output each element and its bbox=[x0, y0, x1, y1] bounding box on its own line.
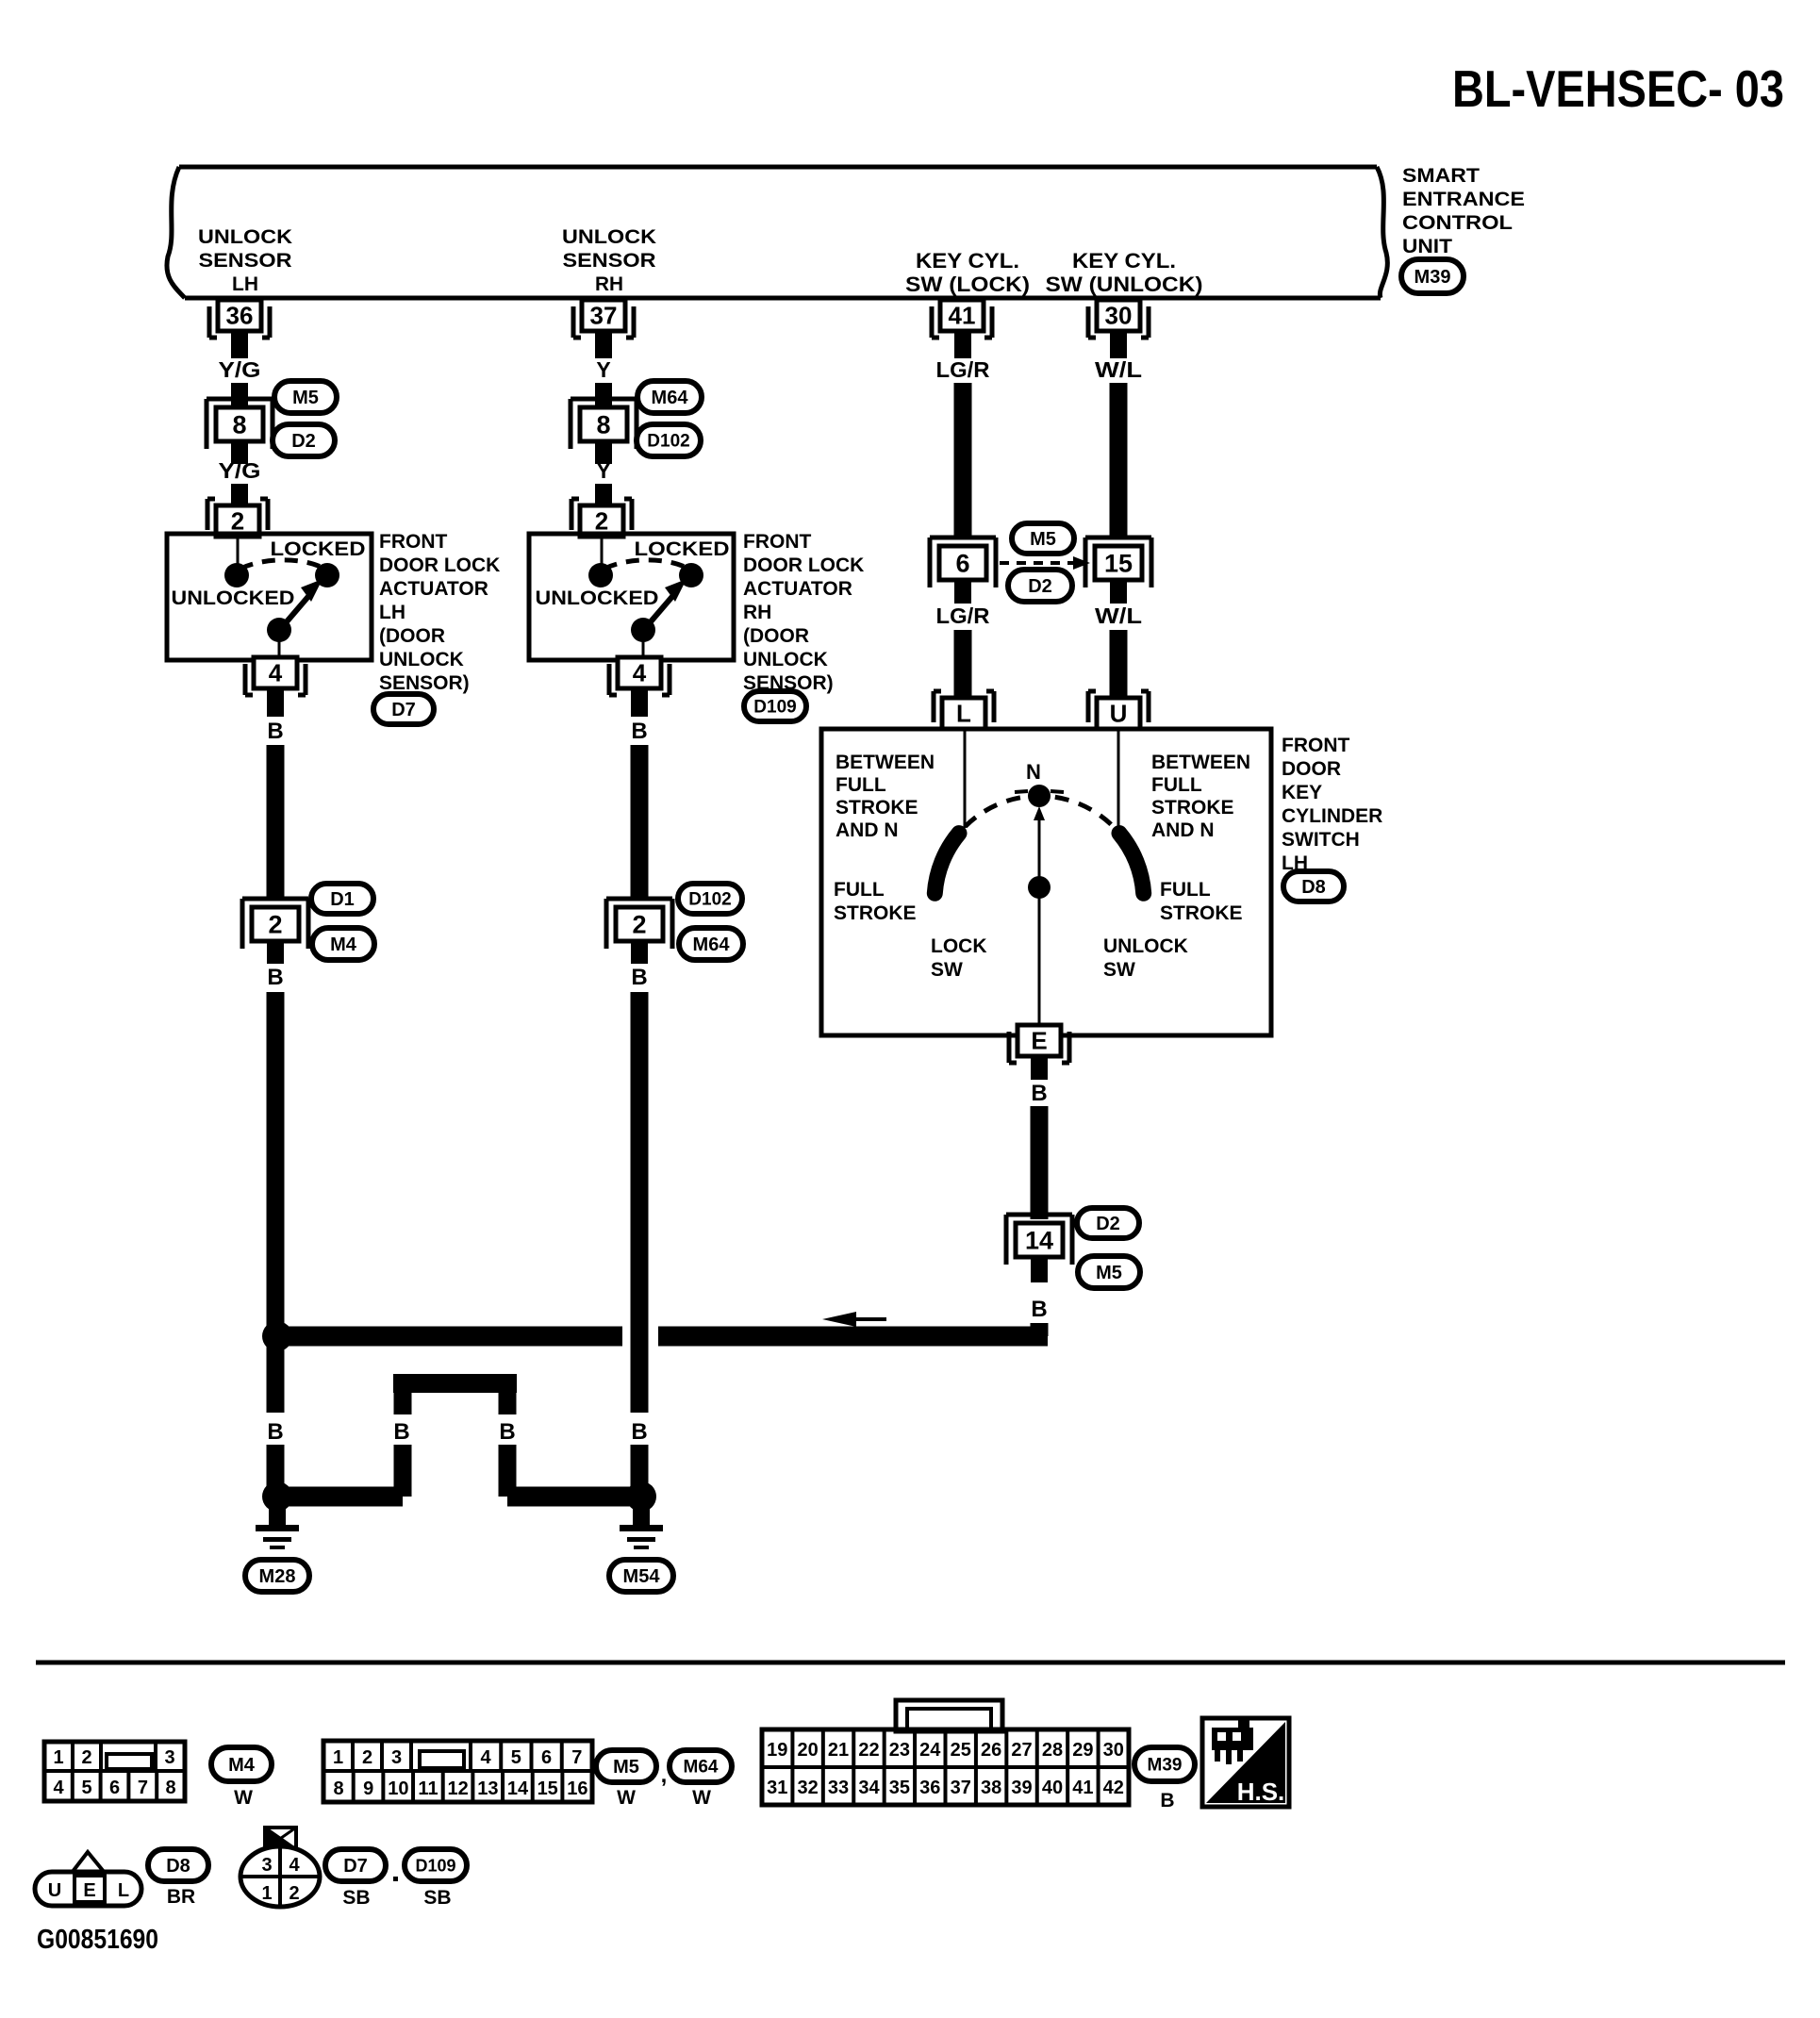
junction node RH ground bbox=[626, 1481, 656, 1512]
svg-text:FRONT: FRONT bbox=[743, 531, 811, 553]
bridge wire between ground junctions bbox=[393, 1374, 517, 1497]
connector label D8 bbox=[1283, 871, 1344, 901]
svg-text:LH: LH bbox=[232, 273, 258, 295]
wire B LH upper bbox=[267, 745, 285, 898]
wire LG/R to connector 6 bbox=[954, 383, 972, 539]
svg-text:W/L: W/L bbox=[1095, 357, 1142, 382]
svg-text:SENSOR): SENSOR) bbox=[379, 672, 470, 694]
junction node LH ground bbox=[262, 1481, 292, 1512]
svg-text:4: 4 bbox=[480, 1747, 491, 1768]
label N bbox=[1026, 760, 1041, 784]
svg-text:20: 20 bbox=[798, 1740, 819, 1761]
connector label D102 bbox=[637, 424, 701, 456]
svg-text:W: W bbox=[617, 1787, 636, 1809]
inline connector 2 (D1/M4) bbox=[242, 899, 308, 949]
svg-text:B: B bbox=[1031, 1297, 1047, 1322]
inline connector 14 (D2/M5) bbox=[1006, 1215, 1072, 1265]
svg-text:37: 37 bbox=[951, 1778, 971, 1798]
wire horizontal key cyl to junction (left) bbox=[286, 1327, 622, 1347]
connector label M39 (face) bbox=[1134, 1747, 1195, 1781]
connector color B (M39) bbox=[1160, 1790, 1174, 1811]
label BETWEEN FULL STROKE AND N (left) bbox=[836, 752, 935, 841]
connector face M5/M64 (16-pin) bbox=[323, 1741, 592, 1802]
svg-text:B: B bbox=[631, 1419, 647, 1445]
pin 2 actuator LH bbox=[207, 499, 268, 537]
wire LG/R to pin L bbox=[954, 630, 972, 698]
svg-text:2: 2 bbox=[268, 910, 282, 938]
wire B RH down (crosses junction wire) bbox=[631, 992, 649, 1413]
comma bbox=[661, 1762, 668, 1788]
svg-text:STROKE: STROKE bbox=[1160, 902, 1243, 924]
label FRONT DOOR LOCK ACTUATOR RH bbox=[743, 531, 864, 694]
inline connector 8 (M64/D102) RH bbox=[571, 399, 637, 449]
wire color Y/G bbox=[219, 458, 261, 483]
svg-text:M5: M5 bbox=[292, 388, 319, 408]
svg-text:6: 6 bbox=[109, 1778, 120, 1798]
svg-text:30: 30 bbox=[1103, 1740, 1124, 1761]
svg-text:LG/R: LG/R bbox=[936, 357, 990, 382]
svg-text:36: 36 bbox=[919, 1778, 940, 1798]
wire B to junction corner bbox=[1031, 1323, 1049, 1336]
svg-text:35: 35 bbox=[889, 1778, 910, 1798]
wire stub below connector 6 bbox=[954, 580, 971, 604]
svg-text:6: 6 bbox=[541, 1747, 552, 1768]
connector label D7 bbox=[373, 694, 434, 724]
wire B LH to ground junction bbox=[267, 1445, 285, 1490]
svg-text:M64: M64 bbox=[652, 388, 689, 408]
svg-text:B: B bbox=[1160, 1790, 1174, 1811]
svg-text:D102: D102 bbox=[647, 432, 689, 452]
svg-text:12: 12 bbox=[448, 1778, 469, 1799]
svg-text:B: B bbox=[267, 1419, 283, 1445]
connector label D1 bbox=[311, 884, 373, 914]
wire color Y/G bbox=[219, 357, 261, 382]
pin 2 actuator RH bbox=[571, 499, 632, 537]
pin 41 bbox=[932, 300, 992, 338]
svg-text:SW (UNLOCK): SW (UNLOCK) bbox=[1046, 273, 1203, 296]
inline connector 6 (M5/D2) bbox=[930, 538, 996, 587]
svg-text:B: B bbox=[267, 965, 283, 990]
wire stub below pin 4 LH bbox=[267, 687, 284, 717]
wire stub below pin 30 bbox=[1110, 331, 1127, 358]
wire bottom left horizontal bbox=[277, 1487, 403, 1507]
svg-text:M5: M5 bbox=[613, 1757, 639, 1778]
label UNLOCK SENSOR RH bbox=[562, 226, 656, 295]
svg-text:STROKE: STROKE bbox=[834, 902, 917, 924]
svg-text:U: U bbox=[1110, 700, 1128, 728]
svg-text:2: 2 bbox=[231, 507, 244, 536]
svg-text:M39: M39 bbox=[1415, 267, 1451, 288]
svg-text:DOOR LOCK: DOOR LOCK bbox=[743, 554, 864, 576]
svg-text:4: 4 bbox=[53, 1778, 64, 1798]
wire stub below pin 4 RH bbox=[631, 687, 648, 717]
svg-text:38: 38 bbox=[981, 1778, 1001, 1798]
svg-text:D1: D1 bbox=[330, 889, 355, 910]
wire stub below connector 14 bbox=[1031, 1257, 1048, 1282]
connector face M4 (8-pin) bbox=[44, 1742, 185, 1801]
front door lock actuator RH box bbox=[529, 534, 734, 660]
svg-text:B: B bbox=[631, 719, 647, 744]
wire color B (RH) bbox=[631, 719, 647, 744]
wire stub above pin 2 RH bbox=[595, 484, 612, 504]
pin 4 actuator RH bbox=[609, 657, 670, 695]
label FULL STROKE (left) bbox=[834, 879, 917, 924]
svg-text:DOOR LOCK: DOOR LOCK bbox=[379, 554, 500, 576]
svg-text:4: 4 bbox=[289, 1855, 300, 1876]
svg-text:9: 9 bbox=[363, 1778, 373, 1799]
svg-text:KEY: KEY bbox=[1282, 782, 1322, 803]
wire color B (LH bottom) bbox=[267, 1419, 283, 1445]
svg-text:ACTUATOR: ACTUATOR bbox=[743, 578, 852, 600]
pin 36 bbox=[209, 300, 270, 338]
svg-text:FULL: FULL bbox=[834, 879, 885, 901]
svg-text:D109: D109 bbox=[753, 698, 796, 718]
svg-text:W/L: W/L bbox=[1095, 604, 1142, 628]
svg-text:5: 5 bbox=[511, 1747, 521, 1768]
svg-text:UNLOCK: UNLOCK bbox=[198, 226, 292, 248]
connector label D109 bbox=[744, 691, 806, 721]
svg-text:Y/G: Y/G bbox=[219, 458, 261, 483]
svg-text:42: 42 bbox=[1103, 1778, 1124, 1798]
wire stub below pin E bbox=[1031, 1056, 1048, 1080]
wire color B (bridge right) bbox=[499, 1419, 515, 1445]
svg-text:(DOOR: (DOOR bbox=[743, 625, 809, 647]
connector label M5 bbox=[274, 381, 337, 413]
svg-text:M28: M28 bbox=[259, 1566, 296, 1587]
connector label M4 bbox=[312, 928, 374, 960]
ground symbol M54 bbox=[620, 1509, 663, 1549]
inline connector 15 (M5/D2) bbox=[1085, 538, 1151, 587]
svg-text:LOCKED: LOCKED bbox=[271, 538, 366, 560]
connector label D8 (face) bbox=[148, 1849, 208, 1881]
svg-text:D8: D8 bbox=[166, 1856, 190, 1877]
wire horizontal key cyl to junction (right) bbox=[658, 1327, 1048, 1347]
svg-text:28: 28 bbox=[1042, 1740, 1063, 1761]
figure id G00851690 bbox=[37, 1925, 158, 1955]
svg-text:15: 15 bbox=[1104, 549, 1133, 577]
svg-text:H.S.: H.S. bbox=[1237, 1778, 1285, 1806]
wire stub below connector 8 bbox=[231, 441, 248, 464]
svg-text:SB: SB bbox=[423, 1887, 451, 1909]
wire color B (RH lower) bbox=[631, 965, 647, 990]
svg-text:33: 33 bbox=[828, 1778, 849, 1798]
svg-text:10: 10 bbox=[388, 1778, 408, 1799]
wire B RH to ground junction bbox=[631, 1445, 649, 1490]
svg-text:SWITCH: SWITCH bbox=[1282, 829, 1360, 851]
svg-text:KEY CYL.: KEY CYL. bbox=[1072, 249, 1176, 273]
label FULL STROKE (right) bbox=[1160, 879, 1243, 924]
label LOCK SW bbox=[931, 935, 987, 981]
svg-text:4: 4 bbox=[633, 659, 647, 687]
svg-text:Y: Y bbox=[596, 357, 610, 382]
svg-text:D2: D2 bbox=[1028, 576, 1052, 597]
svg-text:L: L bbox=[118, 1880, 129, 1901]
svg-text:RH: RH bbox=[595, 273, 623, 295]
svg-text:1: 1 bbox=[53, 1747, 63, 1768]
svg-text:26: 26 bbox=[981, 1740, 1001, 1761]
svg-text:SW (LOCK): SW (LOCK) bbox=[905, 273, 1030, 296]
label LOCKED (RH) bbox=[635, 538, 730, 560]
svg-text:UNLOCKED: UNLOCKED bbox=[172, 587, 295, 609]
svg-text:8: 8 bbox=[596, 410, 610, 438]
label UNLOCKED (LH) bbox=[172, 587, 295, 609]
connector face M39 (24-pin) bbox=[762, 1700, 1129, 1805]
svg-text:AND N: AND N bbox=[836, 819, 899, 841]
connector label D2 (key cyl) bbox=[1008, 570, 1072, 602]
connector label M5 (key cyl) bbox=[1012, 523, 1074, 554]
wire bottom right horizontal bbox=[507, 1487, 641, 1507]
svg-text:3: 3 bbox=[164, 1747, 174, 1768]
svg-text:LOCK: LOCK bbox=[931, 935, 987, 957]
svg-text:36: 36 bbox=[226, 302, 254, 330]
wire color W/L bbox=[1095, 357, 1142, 382]
svg-text:3: 3 bbox=[261, 1855, 272, 1876]
svg-text:Y: Y bbox=[596, 458, 610, 483]
label UNLOCKED (RH) bbox=[536, 587, 659, 609]
connector label M64 bbox=[637, 381, 702, 413]
svg-text:D7: D7 bbox=[391, 700, 416, 720]
label UNLOCK SW bbox=[1103, 935, 1188, 981]
svg-text:D2: D2 bbox=[1096, 1214, 1120, 1234]
svg-text:E: E bbox=[1031, 1027, 1047, 1055]
connector face U-E-L (D8) bbox=[35, 1852, 141, 1906]
svg-text:D109: D109 bbox=[415, 1856, 455, 1875]
svg-text:BETWEEN: BETWEEN bbox=[836, 752, 935, 773]
svg-text:B: B bbox=[267, 719, 283, 744]
svg-text:Y/G: Y/G bbox=[219, 357, 261, 382]
wire B LH below junction bbox=[267, 1343, 285, 1413]
wire B RH upper bbox=[631, 745, 649, 898]
svg-text:SMART: SMART bbox=[1402, 165, 1480, 187]
svg-text:41: 41 bbox=[1072, 1778, 1093, 1798]
wire color W/L (lower) bbox=[1095, 604, 1142, 628]
svg-text:14: 14 bbox=[1025, 1226, 1053, 1254]
wire color B (bridge left) bbox=[393, 1419, 409, 1445]
connector face round 4-pin (D7/D109) bbox=[240, 1828, 320, 1907]
svg-text:1: 1 bbox=[261, 1883, 272, 1904]
svg-text:CONTROL: CONTROL bbox=[1402, 212, 1513, 234]
svg-text:RH: RH bbox=[743, 602, 771, 623]
wire stub above pin 2 bbox=[231, 484, 248, 504]
pin 30 bbox=[1088, 300, 1149, 338]
wire stub below connector 8 RH bbox=[595, 441, 612, 464]
svg-text:M5: M5 bbox=[1030, 529, 1056, 550]
svg-text:14: 14 bbox=[507, 1778, 529, 1799]
svg-text:UNLOCKED: UNLOCKED bbox=[536, 587, 659, 609]
svg-text:W: W bbox=[692, 1787, 711, 1809]
svg-text:ACTUATOR: ACTUATOR bbox=[379, 578, 488, 600]
connector color W (M64) bbox=[692, 1787, 711, 1809]
actuator RH switch (dots, dashed arc, arrow) bbox=[588, 535, 703, 658]
svg-text:E: E bbox=[83, 1880, 95, 1901]
svg-text:N: N bbox=[1026, 760, 1041, 784]
svg-text:BETWEEN: BETWEEN bbox=[1151, 752, 1250, 773]
wire color Y bbox=[596, 458, 610, 483]
svg-text:W: W bbox=[234, 1787, 253, 1809]
svg-text:23: 23 bbox=[889, 1740, 910, 1761]
svg-text:,: , bbox=[661, 1762, 668, 1788]
svg-text:B: B bbox=[1031, 1081, 1047, 1106]
svg-text:SW: SW bbox=[1103, 959, 1135, 981]
svg-text:D8: D8 bbox=[1301, 877, 1326, 898]
svg-text:37: 37 bbox=[590, 302, 618, 330]
svg-text:M64: M64 bbox=[684, 1758, 719, 1778]
svg-text:19: 19 bbox=[767, 1740, 787, 1761]
svg-text:30: 30 bbox=[1105, 302, 1133, 330]
connector label D2 (14) bbox=[1077, 1208, 1139, 1238]
connector label M64 (lower) bbox=[679, 928, 743, 960]
pin U bbox=[1088, 691, 1149, 729]
ground label M28 bbox=[245, 1560, 309, 1592]
svg-text:5: 5 bbox=[81, 1778, 91, 1798]
connector color W (M4) bbox=[234, 1787, 253, 1809]
label KEY CYL. SW (UNLOCK) bbox=[1046, 249, 1203, 296]
svg-text:M39: M39 bbox=[1148, 1756, 1183, 1776]
svg-text:7: 7 bbox=[138, 1778, 148, 1798]
connector color SB (D7) bbox=[342, 1887, 370, 1909]
svg-text:M54: M54 bbox=[623, 1566, 661, 1587]
svg-text:B: B bbox=[499, 1419, 515, 1445]
wire W/L to connector 15 bbox=[1110, 383, 1128, 539]
svg-text:BR: BR bbox=[167, 1886, 195, 1908]
svg-text:UNLOCK: UNLOCK bbox=[1103, 935, 1188, 957]
svg-text:8: 8 bbox=[232, 410, 246, 438]
label SMART ENTRANCE CONTROL UNIT bbox=[1402, 165, 1525, 257]
connector label M4 (face) bbox=[211, 1747, 272, 1781]
ground symbol M28 bbox=[256, 1509, 299, 1549]
svg-text:32: 32 bbox=[798, 1778, 819, 1798]
wire stub above connector M64/D102 bbox=[595, 383, 612, 405]
dashed connector link 6-15 bbox=[1000, 556, 1090, 570]
connector color BR (D8) bbox=[167, 1886, 195, 1908]
wire stub below connector 15 bbox=[1110, 580, 1127, 604]
svg-text:D102: D102 bbox=[688, 890, 731, 910]
separator line bbox=[36, 1661, 1785, 1665]
svg-text:7: 7 bbox=[571, 1747, 582, 1768]
svg-text:SENSOR: SENSOR bbox=[199, 250, 292, 272]
label LOCKED (LH) bbox=[271, 538, 366, 560]
svg-text:4: 4 bbox=[269, 659, 283, 687]
svg-text:UNLOCK: UNLOCK bbox=[743, 649, 828, 670]
wire color B (RH bottom) bbox=[631, 1419, 647, 1445]
wire color B (LH) bbox=[267, 719, 283, 744]
wire stub below pin 41 bbox=[954, 331, 971, 358]
wire stub below connector 2 RH bbox=[631, 941, 648, 964]
pin L bbox=[934, 691, 994, 729]
svg-text:CYLINDER: CYLINDER bbox=[1282, 805, 1382, 827]
wire W/L to pin U bbox=[1110, 630, 1128, 698]
inline connector 8 (M5/D2) LH bbox=[207, 399, 273, 449]
current-flow arrow bbox=[822, 1312, 886, 1327]
period bbox=[393, 1877, 398, 1881]
wire B LH to junction bbox=[267, 992, 285, 1330]
svg-text:24: 24 bbox=[919, 1740, 941, 1761]
wire color B (E) bbox=[1031, 1081, 1047, 1106]
svg-text:29: 29 bbox=[1072, 1740, 1093, 1761]
svg-text:BL-VEHSEC- 03: BL-VEHSEC- 03 bbox=[1452, 59, 1784, 118]
svg-text:U: U bbox=[48, 1880, 61, 1901]
wire color B (LH lower) bbox=[267, 965, 283, 990]
svg-text:FRONT: FRONT bbox=[379, 531, 447, 553]
svg-text:SB: SB bbox=[342, 1887, 370, 1909]
svg-text:2: 2 bbox=[632, 910, 646, 938]
svg-text:25: 25 bbox=[951, 1740, 971, 1761]
svg-text:6: 6 bbox=[955, 549, 969, 577]
pin E bbox=[1009, 1025, 1069, 1063]
connector label D109 (face) bbox=[405, 1849, 467, 1881]
wire color LG/R bbox=[936, 357, 990, 382]
label FRONT DOOR LOCK ACTUATOR LH bbox=[379, 531, 500, 694]
svg-text:L: L bbox=[956, 700, 971, 728]
svg-text:27: 27 bbox=[1011, 1740, 1032, 1761]
wire stub below pin 36 bbox=[231, 331, 248, 358]
connector label D7 (face) bbox=[325, 1849, 386, 1881]
svg-text:8: 8 bbox=[333, 1778, 343, 1799]
pin 4 actuator LH bbox=[245, 657, 306, 695]
svg-text:40: 40 bbox=[1042, 1778, 1063, 1798]
front door key cylinder switch LH box bbox=[821, 729, 1271, 1035]
junction node (LH/key cyl) bbox=[262, 1321, 292, 1351]
svg-text:LH: LH bbox=[379, 602, 405, 623]
actuator LH switch (dots, dashed arc, arrow) bbox=[224, 535, 339, 658]
svg-text:M5: M5 bbox=[1096, 1263, 1122, 1283]
svg-text:STROKE: STROKE bbox=[1151, 797, 1234, 819]
svg-text:16: 16 bbox=[567, 1778, 587, 1799]
wire color LG/R (lower) bbox=[936, 604, 990, 628]
connector label M5 (14) bbox=[1078, 1256, 1140, 1288]
svg-text:B: B bbox=[631, 965, 647, 990]
svg-text:21: 21 bbox=[828, 1740, 849, 1761]
svg-text:SENSOR: SENSOR bbox=[563, 250, 656, 272]
svg-text:2: 2 bbox=[362, 1747, 372, 1768]
label UNLOCK SENSOR LH bbox=[198, 226, 292, 295]
svg-text:D2: D2 bbox=[291, 431, 316, 452]
front door lock actuator LH box bbox=[167, 534, 372, 660]
svg-text:2: 2 bbox=[81, 1747, 91, 1768]
title BL-VEHSEC- 03 bbox=[1452, 59, 1784, 118]
H.S. (harness side) symbol bbox=[1202, 1718, 1289, 1807]
svg-text:B: B bbox=[393, 1419, 409, 1445]
svg-text:1: 1 bbox=[333, 1747, 343, 1768]
wire color B (below 14) bbox=[1031, 1297, 1047, 1322]
connector color W (M5) bbox=[617, 1787, 636, 1809]
svg-text:UNLOCK: UNLOCK bbox=[562, 226, 656, 248]
svg-text:G00851690: G00851690 bbox=[37, 1925, 158, 1955]
svg-text:SW: SW bbox=[931, 959, 963, 981]
svg-text:M64: M64 bbox=[693, 935, 731, 955]
svg-text:FULL: FULL bbox=[1160, 879, 1211, 901]
svg-text:34: 34 bbox=[858, 1778, 880, 1798]
svg-text:39: 39 bbox=[1011, 1778, 1032, 1798]
wire color Y bbox=[596, 357, 610, 382]
svg-text:DOOR: DOOR bbox=[1282, 758, 1341, 780]
svg-text:AND N: AND N bbox=[1151, 819, 1215, 841]
svg-text:FULL: FULL bbox=[1151, 774, 1202, 796]
svg-text:31: 31 bbox=[767, 1778, 787, 1798]
connector color SB (D109) bbox=[423, 1887, 451, 1909]
connector label M64 (face) bbox=[670, 1750, 732, 1782]
svg-text:ENTRANCE: ENTRANCE bbox=[1402, 189, 1525, 210]
svg-text:FRONT: FRONT bbox=[1282, 735, 1349, 756]
svg-text:2: 2 bbox=[595, 507, 608, 536]
svg-text:(DOOR: (DOOR bbox=[379, 625, 445, 647]
wire B from E bbox=[1031, 1106, 1049, 1219]
label FRONT DOOR KEY CYLINDER SWITCH LH bbox=[1282, 735, 1382, 874]
connector label D102 (lower) bbox=[678, 884, 742, 914]
connector label D2 bbox=[273, 424, 335, 456]
svg-text:KEY CYL.: KEY CYL. bbox=[916, 249, 1019, 273]
svg-text:15: 15 bbox=[538, 1778, 558, 1799]
